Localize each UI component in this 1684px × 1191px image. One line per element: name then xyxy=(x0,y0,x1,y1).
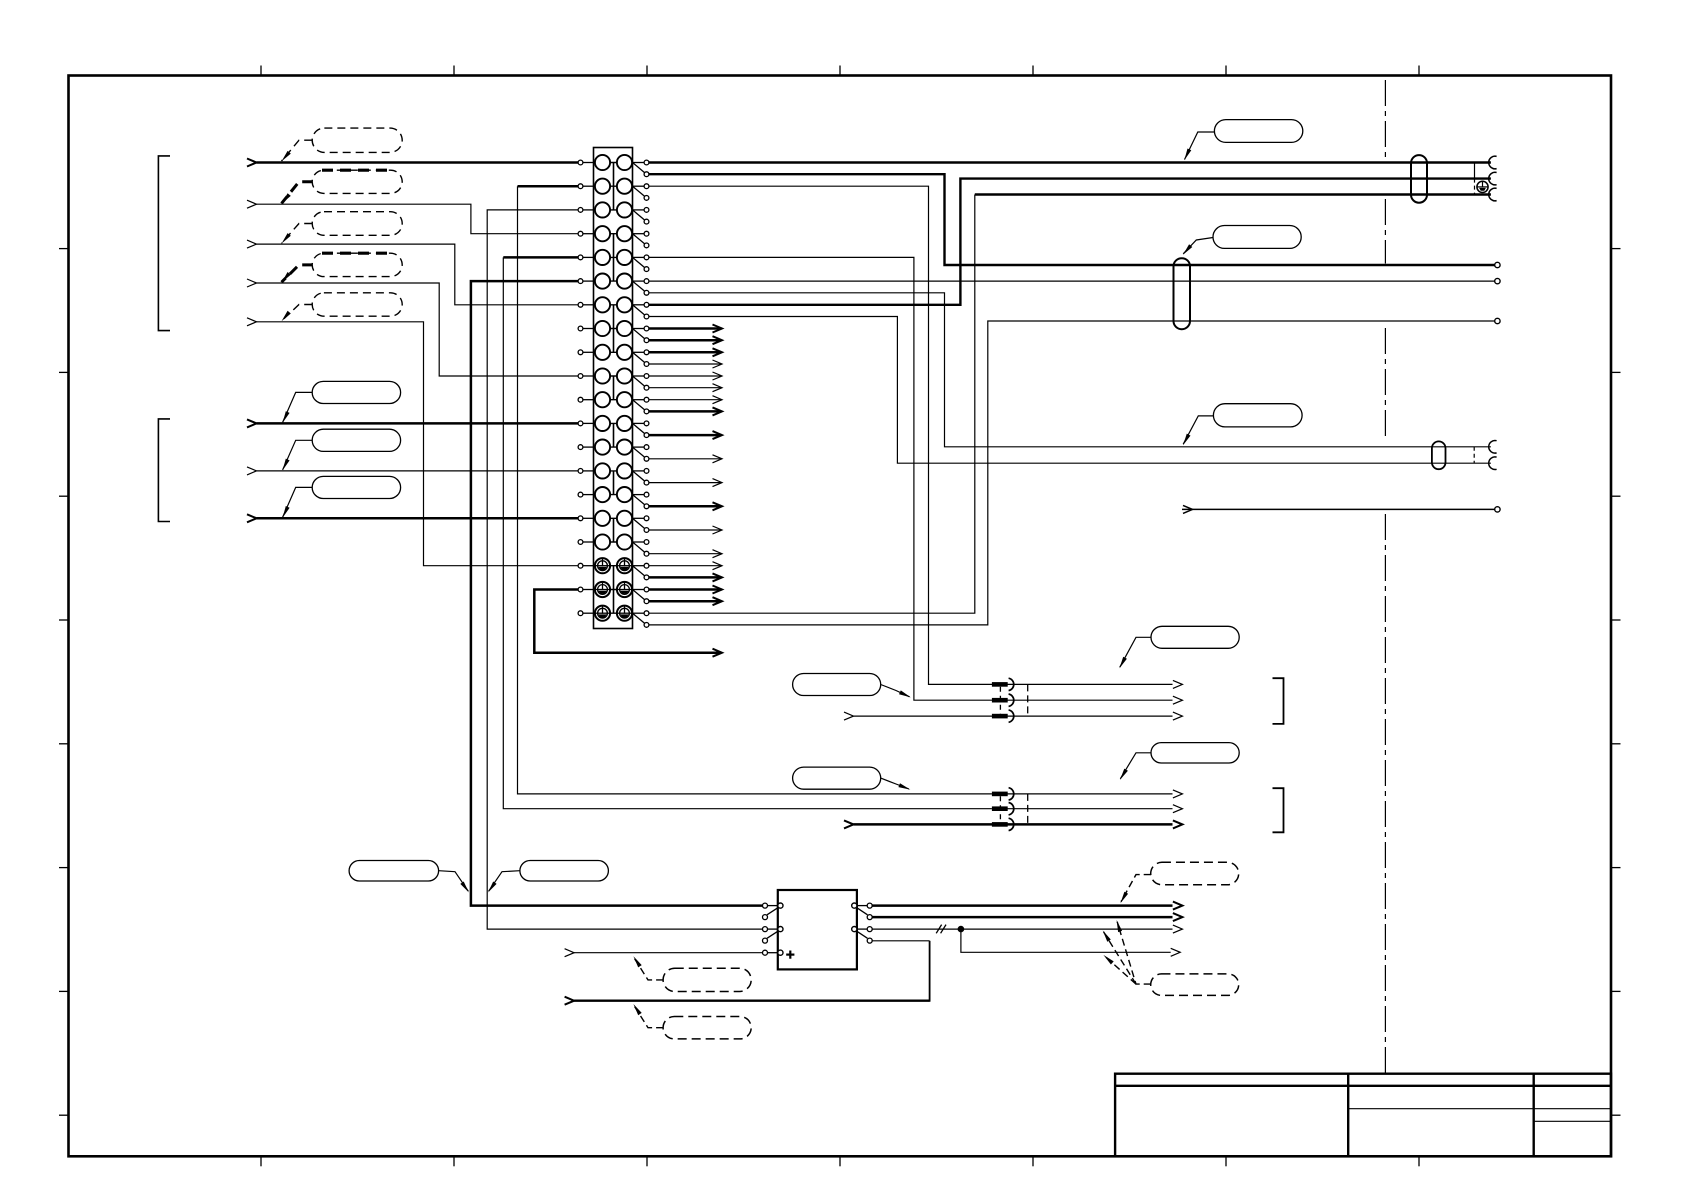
wire TB1 row 3 feed from PSU pin2 xyxy=(487,210,762,929)
splice cable G line1 xyxy=(992,678,1014,690)
wire cable E line2 from row6 upper stub xyxy=(649,280,1495,282)
wire A4 input to TB1 row 10 xyxy=(247,279,578,376)
splice cable D line1 xyxy=(992,788,1014,800)
callout flag note cable C xyxy=(1184,120,1303,161)
cable C contact hook 3 xyxy=(1489,188,1497,201)
cable F shield link dashed xyxy=(1473,447,1475,463)
splice cable G line2 xyxy=(992,694,1014,706)
wire input (thick) to U1 pin2 lower xyxy=(565,941,930,1005)
wire input to U1 pin3 xyxy=(565,949,763,957)
splice group D dashed link xyxy=(999,796,1001,822)
terminal TB1 row 12 xyxy=(578,416,649,438)
U1 polarity plus mark xyxy=(786,951,794,959)
wire U1 output 1 (thick) xyxy=(872,902,1182,910)
left bracket group A xyxy=(158,156,170,331)
callout flag note cable E xyxy=(1183,226,1301,255)
cable E contact circle 3 xyxy=(1495,318,1500,323)
wire cable C line2 (thick) from row7 upper stub xyxy=(649,179,1491,305)
wire cable G line2 arrow xyxy=(1173,696,1183,704)
wire cable D line1 arrow xyxy=(992,790,1183,798)
wire TB1 row 5 feed (thick stub) xyxy=(503,256,578,259)
cable F contact hook 2 xyxy=(1489,457,1497,470)
terminal TB1 row 16 xyxy=(578,511,649,533)
terminal TB1 row 11 xyxy=(578,392,649,414)
terminal TB1 row 9 xyxy=(578,345,649,367)
callout dashed U1 outputs upper xyxy=(1120,862,1238,903)
wire cable G line1 arrow xyxy=(1173,680,1183,688)
terminal TB1 row 13 xyxy=(578,440,649,462)
splice group G dashed link xyxy=(999,687,1001,714)
wire TB1 row8 lower stub arrow (thick) xyxy=(649,336,722,344)
wire TB1 row11 lower stub arrow (thick) xyxy=(649,407,722,415)
terminal TB1 row 3 xyxy=(578,202,649,224)
power supply box U1 xyxy=(778,890,857,969)
wire separation double slash xyxy=(936,925,946,934)
terminal TB1 row 7 xyxy=(578,297,649,319)
terminal TB1 row 2 xyxy=(578,179,649,201)
terminal TB1 row 20 xyxy=(578,606,649,628)
cable E binder loop xyxy=(1174,258,1191,329)
wire A1 input (thick) to TB1 row 1 xyxy=(247,159,578,167)
callout flag note cable G right xyxy=(1119,626,1239,668)
vertical dash-dot centerline xyxy=(1384,80,1386,1074)
wire TB1 row8 upper stub arrow (thick) xyxy=(649,325,722,333)
callout dashed U1 outputs lower fan xyxy=(1103,920,1239,995)
cable C binder loop xyxy=(1411,155,1427,203)
wire TB1 row 6 feed (thick) from PSU pin1 xyxy=(471,281,763,906)
terminal jumper links xyxy=(613,163,615,614)
wire vertical x517 row2 to cable D line1 xyxy=(518,186,992,794)
wire TB1 row 19 elbow to arrow xyxy=(534,590,722,657)
wire cable G line2 from row5 upper stub xyxy=(649,257,1173,700)
callout dashed input pin3 xyxy=(633,956,751,991)
protective earth symbol xyxy=(1477,181,1488,192)
wire cable C row1 lower stub to cable E line1 xyxy=(649,174,1495,265)
wire TB1 row9 lower stub arrow xyxy=(649,360,722,368)
callout flag note A1 (dashed) xyxy=(282,128,403,161)
wire A3 input to TB1 row 7 xyxy=(247,240,578,305)
callout dashed input pin2 xyxy=(633,1004,751,1039)
wire TB1 row18 lower stub arrow (thick) xyxy=(649,573,722,581)
wire TB1 row19 upper stub arrow (thick) xyxy=(649,586,722,594)
wire cable F line1 from row6 lower stub xyxy=(649,293,1491,447)
wire cable G line3 input xyxy=(844,712,1182,720)
wire TB1 row15 lower stub arrow (thick) xyxy=(649,502,722,510)
cable D dashed tie xyxy=(1027,794,1029,825)
cable F binder loop xyxy=(1432,441,1446,469)
U1 left pins xyxy=(763,903,784,955)
junction dot xyxy=(958,926,964,932)
callout flag note A2 (dashed) xyxy=(282,170,403,204)
terminal TB1 row 14 xyxy=(578,463,649,485)
wire single output to contact xyxy=(1182,505,1500,513)
wire B3 input (thick) to TB1 row 16 xyxy=(247,514,578,522)
terminal TB1 row 15 xyxy=(578,487,649,509)
terminal TB1 row 19 xyxy=(578,582,649,604)
wire cable G line1 from row2 upper stub xyxy=(649,186,1173,684)
wire U1 output 3 xyxy=(872,925,1182,933)
wire TB1 row 2 feed (thick stub) xyxy=(518,185,579,188)
cable E contact circle 2 xyxy=(1495,278,1500,283)
wire cable C line3 riser from row20 upper stub xyxy=(649,195,975,614)
wire TB1 row12 lower stub arrow (thick) xyxy=(649,431,722,439)
wire cable C line1 (thick) from row1 upper stub xyxy=(649,161,1491,163)
wire TB1 row11 upper stub arrow xyxy=(649,396,722,404)
wire B1 input (thick) to TB1 row 12 xyxy=(247,419,578,427)
U1 right pins xyxy=(852,903,873,943)
cable E contact circle 1 xyxy=(1495,262,1500,267)
terminal TB1 row 5 xyxy=(578,250,649,272)
wire TB1 row14 lower stub arrow xyxy=(649,479,722,487)
cable C shield link solid xyxy=(1474,163,1476,179)
wire B2 input to TB1 row 14 xyxy=(247,467,578,475)
cable C contact hook 2 xyxy=(1489,172,1497,185)
wire A2 input to TB1 row 4 xyxy=(247,200,578,234)
callout flag note B2 xyxy=(283,429,401,470)
callout flag note cable F xyxy=(1183,404,1302,446)
wire cable F line2 from row7 lower stub xyxy=(649,317,1491,464)
wire TB1 row18 upper stub arrow xyxy=(649,562,722,570)
callout flag note U1 feed left xyxy=(349,861,469,893)
callout flag note A3 (dashed) xyxy=(282,212,403,244)
wire cable E line3 from row20 lower stub xyxy=(649,321,1495,625)
bracket cable D xyxy=(1273,788,1284,832)
wire TB1 row10 lower stub arrow xyxy=(649,384,722,392)
wire U1 output 2 (thick) xyxy=(872,913,1182,921)
splice cable G line3 xyxy=(992,710,1014,722)
terminal TB1 row 4 xyxy=(578,226,649,248)
wire cable D line2 arrow xyxy=(992,805,1183,813)
title block xyxy=(1115,1074,1611,1157)
splice cable D line2 xyxy=(992,803,1014,815)
callout flag note B1 xyxy=(283,381,401,423)
callout flag note cable D right xyxy=(1120,743,1239,780)
wire TB1 row13 lower stub arrow xyxy=(649,455,722,463)
terminal TB1 row 1 xyxy=(578,155,649,177)
wire TB1 row19 lower stub arrow (thick) xyxy=(649,597,722,605)
wire branch from junction xyxy=(961,929,1180,956)
wire TB1 row9 upper stub arrow (thick) xyxy=(649,348,722,356)
callout flag note cable G left xyxy=(793,674,911,698)
wire cable D line3 input (thick) xyxy=(844,820,1182,828)
wire TB1 row16 lower stub arrow xyxy=(649,526,722,534)
cable C contact hook 1 xyxy=(1489,156,1497,169)
wire TB1 row10 upper stub arrow xyxy=(649,372,722,380)
terminal TB1 row 17 xyxy=(578,534,649,556)
callout flag note cable D left xyxy=(793,767,911,790)
terminal block TB1 outline xyxy=(594,148,633,629)
terminal TB1 row 8 xyxy=(578,321,649,343)
callout flag note A5 (dashed) xyxy=(282,293,403,322)
wire A5 input to TB1 row 18 xyxy=(247,318,578,566)
bracket cable G xyxy=(1273,678,1284,724)
wire vertical x503 row5 to cable D line2 xyxy=(503,257,992,808)
wire TB1 row17 lower stub arrow xyxy=(649,550,722,558)
cable C shield link dashed xyxy=(1474,179,1476,195)
left bracket group B xyxy=(158,419,170,522)
cable G dashed tie xyxy=(1027,684,1029,716)
terminal TB1 row 6 xyxy=(578,274,649,296)
wire cable C line3 (thick) xyxy=(975,193,1491,195)
splice cable D line3 xyxy=(992,818,1014,830)
cable F contact hook 1 xyxy=(1489,441,1497,454)
callout flag note A4 (dashed) xyxy=(282,253,403,282)
callout flag note U1 feed right xyxy=(488,861,608,893)
terminal TB1 row 18 xyxy=(578,558,649,580)
terminal TB1 row 10 xyxy=(578,368,649,390)
callout flag note B3 xyxy=(283,476,401,517)
